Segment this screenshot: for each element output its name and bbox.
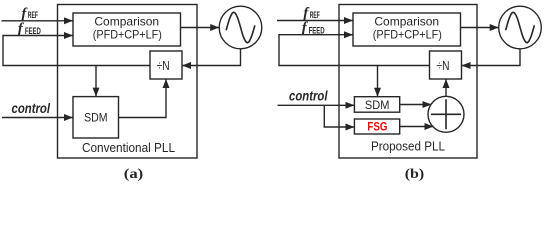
divider block /N (a) [150, 51, 182, 79]
wire fFEED feedback input arrow (a): from divider output around left [3, 36, 150, 66]
wire control branch to FSG (b) [324, 105, 354, 127]
svg-text:Comparison: Comparison [94, 15, 159, 29]
svg-text:(a): (a) [124, 167, 144, 182]
VCO oscillator circle (a) [219, 6, 262, 49]
svg-text:FEED: FEED [309, 25, 325, 35]
comparison block U1 (PFD+CP+LF) (a) [73, 13, 181, 46]
wire control input arrow to SDM (b) [278, 104, 355, 106]
wire FSG output to summing junction (b) [400, 126, 434, 128]
wire fFEED feedback input arrow (b): from divider output around left [279, 35, 430, 66]
svg-text:Comparison: Comparison [374, 15, 439, 29]
SDM block (a) [73, 97, 119, 138]
svg-text:FEED: FEED [25, 26, 41, 36]
wire fREF input arrow (b) [277, 20, 353, 22]
svg-text:FSG: FSG [367, 119, 387, 133]
svg-text:(PFD+CP+LF): (PFD+CP+LF) [373, 28, 442, 42]
plus sign inside summing junction (b) [431, 99, 461, 129]
wire SDM output to summing junction (b) [400, 104, 432, 106]
wire branch from feedback to SDM top (b) [377, 66, 379, 97]
svg-text:Proposed PLL: Proposed PLL [371, 139, 445, 154]
SDM block (b) [354, 97, 399, 113]
svg-text:(b): (b) [405, 167, 425, 182]
svg-text:SDM: SDM [365, 98, 390, 112]
VCO oscillator circle (b) [499, 6, 542, 49]
svg-text:(PFD+CP+LF): (PFD+CP+LF) [93, 28, 162, 42]
svg-text:REF: REF [310, 10, 320, 20]
sine symbol inside VCO (a) [226, 12, 254, 42]
outer boundary box (b) [339, 5, 477, 159]
svg-text:÷N: ÷N [157, 59, 170, 73]
wire branch from feedback to SDM top (a) [95, 66, 97, 97]
sine symbol inside VCO (b) [506, 12, 534, 42]
divider block /N (b) [430, 51, 462, 79]
wire VCO output down and left into divider (b) [462, 49, 521, 66]
svg-text:Conventional PLL: Conventional PLL [82, 140, 175, 155]
FSG block (b) [354, 119, 399, 134]
svg-text:f: f [18, 21, 25, 37]
svg-text:SDM: SDM [84, 110, 108, 124]
svg-text:control: control [289, 89, 328, 104]
summing junction circle (b) [428, 96, 464, 132]
wire fREF input arrow (a) [2, 20, 74, 22]
wire VCO output down and left into divider (a) [182, 49, 241, 66]
comparison block U2 (PFD+CP+LF) (b) [353, 13, 461, 46]
wire control input arrow (a) [2, 117, 73, 119]
wire comparison output to VCO (b) [461, 27, 499, 29]
wire summing junction output up into divider bottom (b) [445, 79, 447, 97]
outer boundary box (a) [58, 5, 198, 159]
svg-text:control: control [12, 101, 51, 116]
wire comparison output to VCO (a) [181, 27, 220, 29]
svg-text:REF: REF [28, 10, 38, 20]
wire SDM output to divider bottom (a) [119, 79, 167, 118]
svg-text:÷N: ÷N [437, 59, 450, 73]
